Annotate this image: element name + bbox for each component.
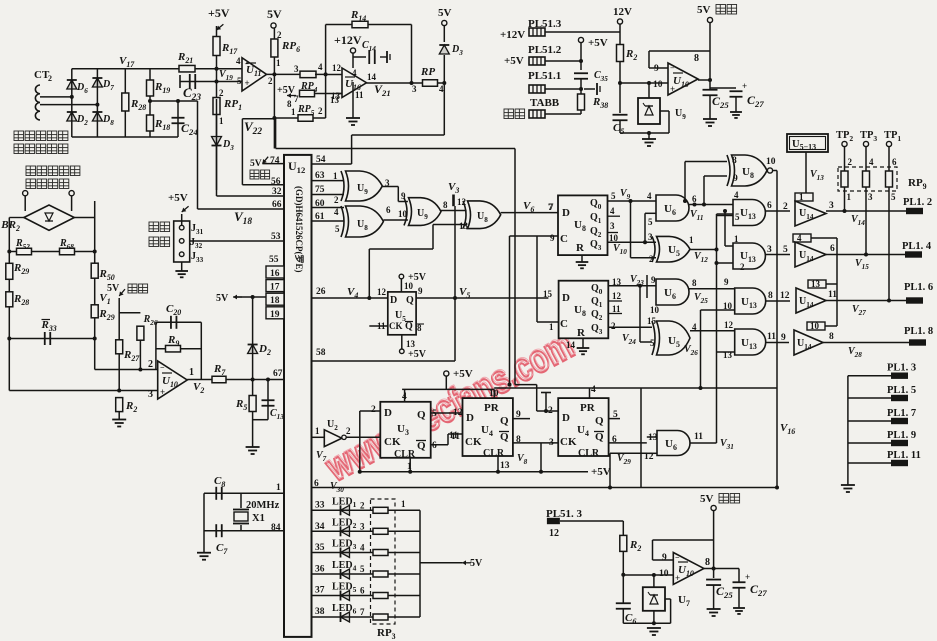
svg-text:10: 10 [653,80,663,90]
and U13c [735,288,766,314]
svg-text:Q: Q [405,321,413,332]
svg-text:5: 5 [650,338,655,348]
svg-text:V28: V28 [848,346,862,359]
svg-text:55: 55 [269,255,279,265]
svg-text:14: 14 [566,340,576,350]
svg-text:PL51.2: PL51.2 [528,44,562,56]
svg-text:4: 4 [797,233,802,243]
svg-text:V6: V6 [523,200,534,214]
svg-text:8: 8 [705,557,710,568]
svg-text:+: + [675,573,680,583]
wire V4 box [369,248,433,250]
svg-text:R: R [577,327,586,339]
svg-text:U5−13: U5−13 [792,139,816,152]
resistor R18 [147,115,154,131]
svg-text:Q: Q [500,431,509,443]
svg-text:54: 54 [316,155,326,165]
svg-text:7: 7 [294,94,299,104]
svg-text:R14: R14 [350,9,366,23]
capacitor C27a [710,87,736,89]
svg-text:+5V: +5V [277,85,296,96]
svg-text:V2: V2 [193,381,204,395]
svg-text:6: 6 [432,441,437,451]
svg-text:6: 6 [892,157,897,167]
svg-text:X1: X1 [252,513,265,524]
svg-text:8: 8 [694,53,699,64]
op-amp U16 [342,68,367,98]
svg-text:3: 3 [648,232,653,242]
svg-text:36: 36 [315,564,325,574]
svg-text:9: 9 [550,233,555,243]
ff U4a [463,398,513,456]
xor U9b [409,198,442,226]
svg-text:11: 11 [449,431,458,441]
svg-text:+: + [745,572,750,582]
op-amp U10b [95,369,158,371]
svg-text:D8: D8 [102,114,114,127]
node [215,67,219,71]
svg-text:+: + [160,387,165,397]
svg-text:V26: V26 [684,344,698,357]
wire V4 [312,297,388,299]
svg-text:CLR: CLR [483,448,505,459]
label +5V mid [444,371,449,376]
svg-text:63: 63 [315,171,325,181]
svg-text:7: 7 [549,202,554,212]
svg-text:10: 10 [609,233,619,243]
svg-text:10: 10 [659,569,669,579]
left box line [640,388,642,488]
svg-text:+: + [742,81,747,91]
svg-text:−: − [245,60,250,69]
wire U5b in [639,286,641,342]
svg-text:9: 9 [733,174,738,184]
wire V5 vert [454,206,456,361]
svg-text:TP3: TP3 [860,130,877,143]
wire U11 out [267,73,302,75]
svg-text:C14: C14 [362,40,376,53]
svg-text:4: 4 [334,207,339,217]
svg-text:16: 16 [270,269,280,279]
svg-text:C27: C27 [750,582,767,598]
svg-text:75: 75 [315,185,325,195]
svg-text:1: 1 [291,107,296,117]
svg-text:56: 56 [271,177,281,187]
svg-text:J32: J32 [190,237,203,250]
svg-text:R21: R21 [177,51,193,65]
svg-text:1: 1 [333,171,338,181]
svg-text:C: C [560,318,568,330]
wire [71,69,73,137]
svg-text:www.elecfans.com: www.elecfans.com [319,321,581,488]
xor U5b [657,321,691,355]
buffer U14c [808,280,826,288]
svg-text:10: 10 [766,157,776,167]
svg-text:PL1. 2: PL1. 2 [903,197,932,208]
svg-text:C35: C35 [594,70,608,83]
resistor R26 [119,312,140,314]
svg-text:V22: V22 [244,119,262,137]
svg-text:3: 3 [412,84,417,94]
svg-text:+5V: +5V [588,37,608,49]
xor U8b [468,201,501,229]
svg-text:13: 13 [500,461,510,471]
svg-text:R33: R33 [41,319,57,333]
wire V6 [501,212,558,214]
ground [181,262,183,271]
diode D6 [67,80,77,89]
wire Qb to CK [431,444,448,446]
svg-text:12: 12 [780,291,790,301]
svg-text:J33: J33 [191,251,204,264]
potentiometer RP1 [213,98,220,115]
svg-text:4: 4 [647,191,652,201]
svg-text:19: 19 [270,310,280,320]
svg-text:J31: J31 [191,223,204,236]
svg-text:D2: D2 [76,114,88,127]
wire pin63 [312,180,345,182]
capacitor C6 [616,602,631,604]
svg-text:1: 1 [847,192,852,202]
diode D8 [92,112,102,121]
svg-text:TABB: TABB [530,97,560,109]
wire V22 [273,74,275,148]
svg-text:V3: V3 [448,181,459,195]
svg-text:5: 5 [611,191,616,201]
svg-text:5V: 5V [438,7,452,19]
svg-text:V8: V8 [517,453,528,466]
buffer U14a [795,193,813,201]
xor U9a [346,171,383,201]
svg-text:LED1: LED1 [332,496,357,509]
svg-text:C27: C27 [747,93,764,109]
svg-text:32: 32 [272,187,282,197]
svg-text:3: 3 [148,389,153,400]
svg-text:84: 84 [271,523,281,533]
svg-text:1: 1 [734,234,739,244]
wire top rail V17 [72,68,240,70]
wire 5vref col [118,298,120,391]
node [117,389,121,393]
svg-text:5: 5 [648,217,653,227]
svg-text:3: 3 [868,192,873,202]
wire J32 to 53 [190,240,284,242]
svg-text:2: 2 [268,76,273,86]
svg-text:2: 2 [740,262,745,272]
svg-text:PL1. 3: PL1. 3 [887,363,916,374]
svg-text:C25: C25 [712,94,729,110]
resistor R2d [622,521,624,575]
node [621,573,625,577]
svg-text:17: 17 [270,283,280,293]
svg-text:3: 3 [767,245,772,255]
svg-text:4: 4 [352,68,357,78]
svg-text:R29: R29 [98,308,114,322]
svg-text:2: 2 [371,405,376,415]
svg-text:Q: Q [417,440,426,452]
svg-text:D: D [384,407,392,419]
svg-text:1: 1 [315,426,320,436]
wire Q0 down [629,199,633,203]
svg-text:13: 13 [811,279,821,289]
resistor R7 [212,376,226,383]
svg-text:2: 2 [346,426,351,436]
LED2 row [312,530,421,532]
svg-text:37: 37 [315,586,325,596]
resistor R52 [9,251,94,253]
svg-text:8: 8 [443,200,448,210]
svg-text:R9: R9 [167,334,179,348]
wire fb [649,67,668,69]
svg-text:5V: 5V [107,283,120,294]
svg-text:9: 9 [781,333,786,343]
svg-text:R19: R19 [154,81,170,95]
svg-text:4: 4 [610,206,615,216]
wire [216,99,218,137]
svg-text:5: 5 [360,564,365,574]
svg-text:R18: R18 [154,118,170,132]
op-amp U11 [242,58,267,91]
wire V18 run [150,100,198,102]
wire Q9 stub [513,418,530,420]
capacitor C14 [368,50,370,64]
svg-text:D: D [562,207,570,219]
svg-text:C8: C8 [214,475,225,489]
svg-text:Q: Q [406,295,414,306]
wire Q5 stub [609,418,620,420]
svg-text:6: 6 [360,586,365,596]
svg-text:R28: R28 [13,293,29,307]
svg-text:8: 8 [732,156,737,166]
wire long mod down [514,149,516,385]
wire V30 long [312,487,778,489]
ff U4b [558,398,608,456]
svg-text:58: 58 [316,348,326,358]
wire [40,96,72,98]
svg-text:10: 10 [810,321,820,331]
wire Q6 to U6c [609,442,647,444]
wire U2 out [346,436,380,438]
zener box U7 [643,587,665,611]
svg-text:CK: CK [384,436,401,448]
LED5 row [312,595,421,597]
wire long mod [275,118,277,149]
resistor R21 [179,65,195,72]
ff U5 [388,292,416,335]
svg-text:CK: CK [560,436,577,448]
svg-text:4: 4 [439,84,444,94]
svg-text:Q: Q [595,431,604,443]
wire Q8 to CK3 [513,442,558,444]
svg-text:V27: V27 [852,304,866,317]
potentiometer RP6v [273,28,275,74]
svg-text:4: 4 [591,385,596,395]
svg-text:6: 6 [767,201,772,211]
svg-text:V24: V24 [622,333,636,346]
svg-text:1: 1 [189,367,194,378]
node V19 [215,80,219,84]
diode D2b [251,378,255,382]
svg-text:7: 7 [360,607,365,617]
+5V rail bottom [358,471,588,473]
bar sym [541,392,551,394]
wire CLR13 [497,456,499,472]
wire pin60 [312,207,345,209]
svg-text:3: 3 [829,201,834,211]
svg-text:18: 18 [270,296,280,306]
svg-text:2: 2 [318,106,323,116]
svg-text:67: 67 [273,369,283,379]
svg-text:4: 4 [360,543,365,553]
svg-text:66: 66 [272,200,282,210]
svg-text:1: 1 [276,483,281,493]
svg-text:+5V: +5V [591,466,611,478]
feedback C20 R9 [155,322,157,369]
svg-text:15: 15 [647,316,657,326]
svg-text:U2: U2 [327,419,338,432]
wire PR rail [404,389,406,401]
svg-text:11: 11 [767,332,776,342]
svg-text:LED6: LED6 [332,603,357,616]
diode D3 [216,114,218,190]
svg-text:2: 2 [848,157,853,167]
svg-text:PL1. 6: PL1. 6 [904,282,933,293]
svg-text:V16: V16 [780,422,795,436]
wire pin61 [312,220,345,222]
svg-text:C24: C24 [181,121,198,137]
svg-text:U7: U7 [678,594,690,608]
wire PR4 [589,388,591,398]
svg-text:V25: V25 [694,292,708,305]
resistor R29b [91,305,98,318]
svg-text:9: 9 [662,553,667,563]
plate stub [584,88,595,90]
svg-text:Q: Q [417,409,426,421]
wire in2 [717,262,734,264]
svg-text:2: 2 [219,88,224,98]
RP3 dashed box [371,499,396,624]
svg-text:D3: D3 [222,139,234,152]
and U6a [656,195,689,221]
svg-text:PR: PR [580,402,596,414]
svg-text:+5V: +5V [208,6,230,20]
svg-text:CLR: CLR [394,449,416,460]
svg-text:V12: V12 [694,251,708,264]
svg-text:+5V: +5V [408,349,427,360]
svg-text:CK: CK [389,321,403,331]
svg-text:2: 2 [48,74,52,83]
bridge BR2 [23,191,28,196]
svg-text:12: 12 [377,287,387,297]
svg-text:R28: R28 [130,98,146,112]
svg-text:5: 5 [335,224,340,234]
LED1 row [312,509,421,511]
svg-text:LED3: LED3 [332,539,357,552]
svg-text:2: 2 [277,30,282,40]
svg-text:C13: C13 [270,408,284,421]
crystal X1 [204,492,284,494]
svg-text:4: 4 [236,56,241,66]
svg-text:RP9: RP9 [908,177,927,191]
svg-text:R38: R38 [592,96,608,110]
svg-text:R5: R5 [235,398,247,412]
op-amp U10c [673,553,704,585]
capacitor C25b [706,579,721,581]
resistor R2c [116,398,123,412]
buffer U14d [807,322,825,330]
and U6c [647,436,657,438]
svg-text:+: + [245,78,250,88]
wire pin10 [623,574,673,576]
svg-text:C5: C5 [613,122,624,136]
svg-text:V17: V17 [119,55,135,69]
trunk V16 [773,170,777,172]
gnd [582,338,584,348]
svg-text:5: 5 [891,192,896,202]
resistor R17 [216,26,218,99]
node V18tap [148,99,152,103]
wire in1 [725,245,733,247]
ground U16 [352,82,354,118]
svg-text:+12V: +12V [334,33,362,47]
svg-text:5: 5 [432,409,437,419]
wire [648,83,650,98]
svg-text:5V: 5V [216,293,229,304]
svg-text:33: 33 [315,501,325,511]
svg-text:13: 13 [406,339,416,349]
svg-text:+: + [670,84,675,94]
wire U6b in10 [646,275,648,298]
svg-text:V5: V5 [459,286,470,300]
svg-text:2: 2 [611,321,616,331]
xor U8a [346,206,384,237]
svg-text:5V: 5V [267,7,282,21]
svg-text:13: 13 [331,91,341,101]
svg-text:PL1. 9: PL1. 9 [887,430,916,441]
capacitor C35 [574,72,588,74]
and U13a [733,200,765,226]
trunk V12 [716,214,718,443]
svg-text:15: 15 [543,289,553,299]
resistor R19 [149,69,151,137]
and U6b [656,279,689,305]
svg-text:35: 35 [315,543,325,553]
wire V13 [805,152,807,193]
wire in10c [701,309,735,311]
svg-text:V4: V4 [347,286,358,300]
and U13b [733,243,765,269]
resistor R27 [116,340,123,354]
svg-text:PL1. 8: PL1. 8 [904,326,933,337]
ff U8c1 [558,195,608,255]
svg-text:RP6: RP6 [281,40,300,54]
5V tap [420,562,462,564]
svg-text:R50: R50 [99,268,115,282]
capacitor C13 [267,380,269,420]
wire in10 [620,82,668,84]
svg-text:12: 12 [332,63,342,73]
svg-text:2: 2 [148,359,153,370]
svg-text:9: 9 [418,286,423,296]
wire U6a in5 [644,213,646,242]
LED bus [419,510,421,617]
svg-text:V18: V18 [234,209,252,227]
svg-text:11: 11 [694,432,703,442]
svg-text:R2: R2 [125,400,137,414]
svg-text:5: 5 [735,212,740,222]
svg-text:PL51.1: PL51.1 [528,70,561,82]
svg-text:2: 2 [783,202,788,212]
